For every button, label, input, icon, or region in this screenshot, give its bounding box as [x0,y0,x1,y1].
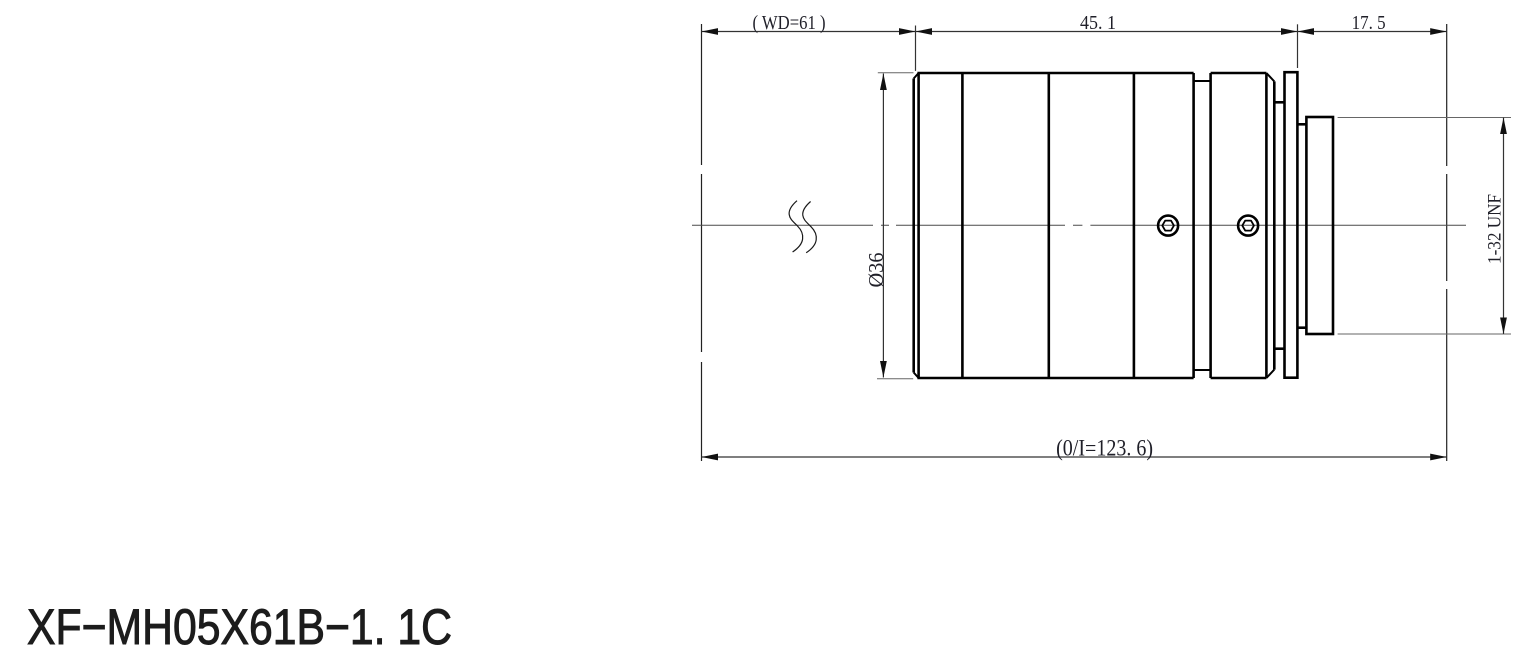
svg-text:(0/I=123. 6): (0/I=123. 6) [1056,436,1153,461]
neck between flange and thread [1297,124,1306,327]
mount flange [1285,72,1298,378]
object plane phantom line [701,24,703,461]
optical axis centerline [692,224,1466,226]
dimension 1-32 UNF [1338,118,1511,335]
divider ring 1 [961,73,964,378]
model number title [27,599,452,655]
dimension phi36 [864,73,914,379]
lens body top edge [917,72,1266,75]
dimension 45.1 [916,12,1298,71]
set screw 1 [1158,216,1178,236]
divider ring 3 [1133,73,1136,378]
svg-text:45. 1: 45. 1 [1080,12,1116,34]
groove ring [1194,73,1211,378]
svg-text:1-32 UNF: 1-32 UNF [1485,194,1506,264]
set screw 2 [1238,216,1258,236]
lens front bezel [914,73,919,378]
dimension 17.5 [1298,12,1447,35]
image plane phantom line [1446,24,1448,461]
dimension WD=61 [702,12,916,35]
rear chamfered ring [1266,73,1274,378]
svg-text:( WD=61 ): ( WD=61 ) [753,12,826,34]
step to flange [1274,102,1284,348]
svg-text:17. 5: 17. 5 [1352,12,1386,34]
divider ring 2 [1048,73,1051,378]
threaded barrel 1-32 UNF [1306,117,1333,334]
break squiggle left [789,201,803,252]
dimension O/I=123.6 [702,436,1447,461]
lens body bottom edge [917,377,1266,380]
svg-text:Ø36: Ø36 [864,252,888,287]
svg-text:XF−MH05X61B−1. 1C: XF−MH05X61B−1. 1C [27,599,452,655]
break squiggle right [803,202,817,253]
